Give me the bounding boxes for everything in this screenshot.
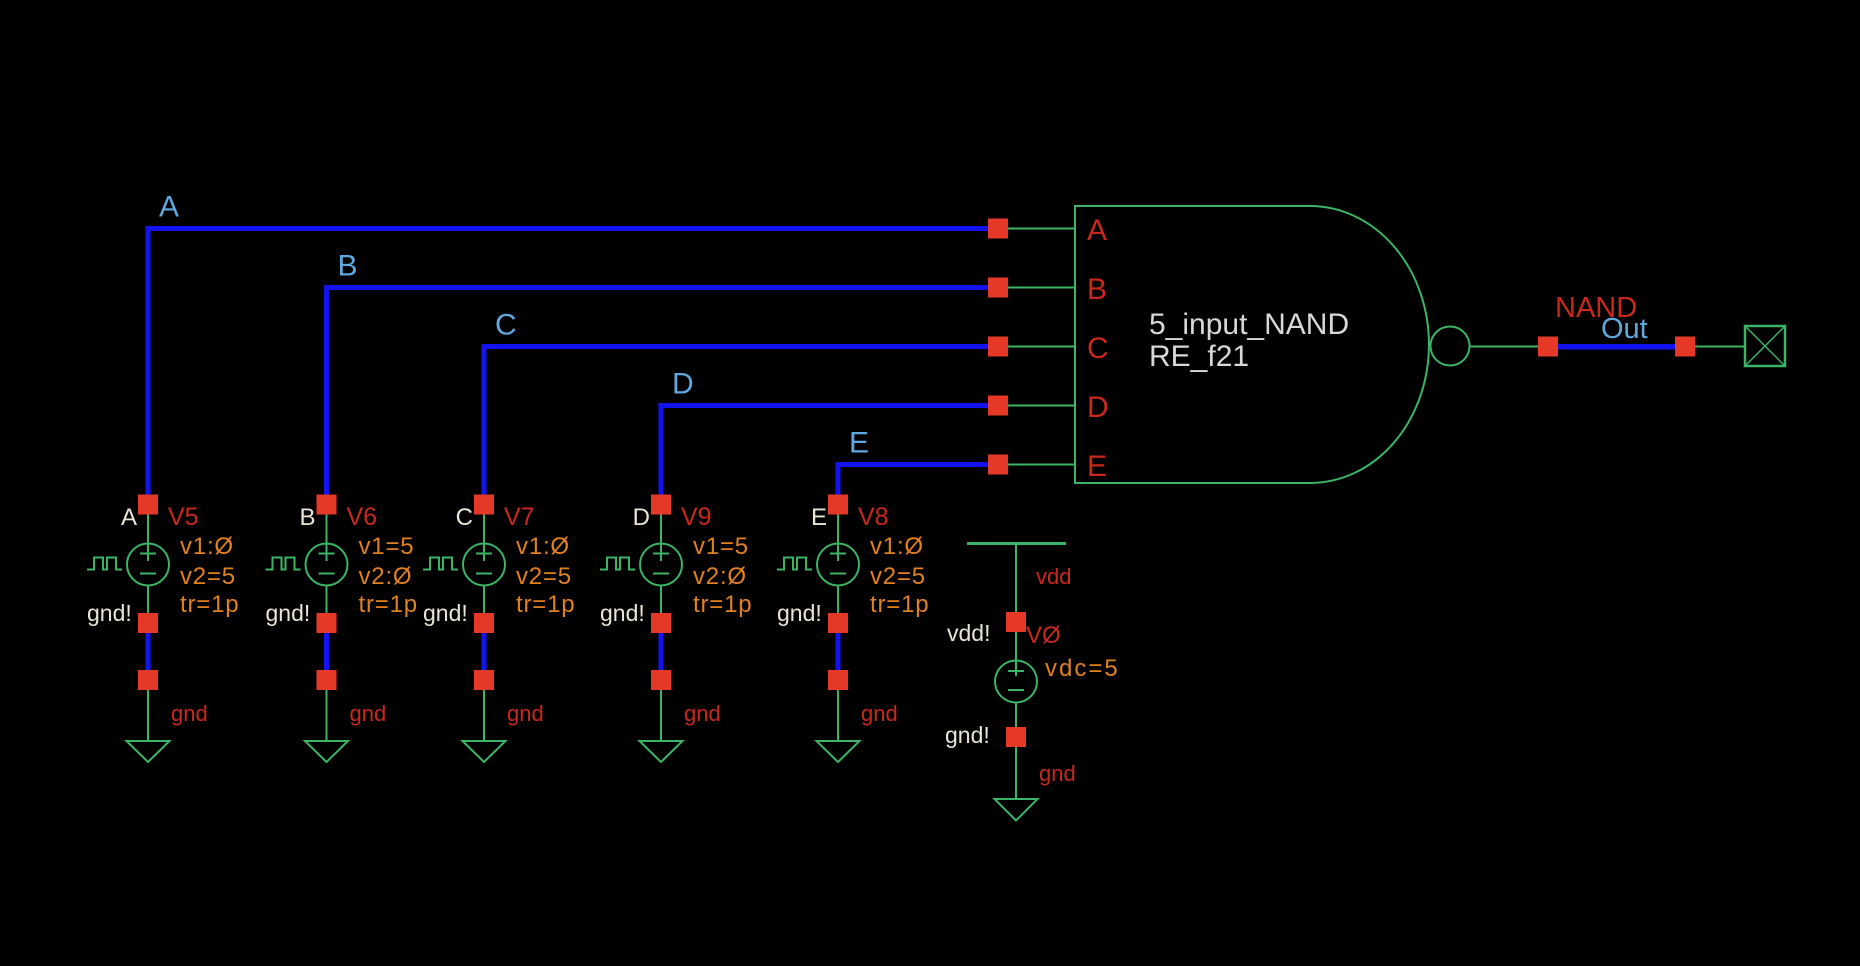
wire lead bottom: [1015, 703, 1017, 728]
minus sign: [476, 573, 492, 575]
svg-text:gnd!: gnd!: [600, 600, 645, 626]
svg-text:v1:Ø: v1:Ø: [516, 533, 570, 560]
pulse waveform glyph: [777, 558, 812, 570]
source circle: [463, 544, 505, 586]
wire lead bottom: [483, 586, 485, 614]
svg-text:E: E: [849, 427, 869, 460]
wire lead bottom: [147, 586, 149, 614]
wire lead top: [1015, 632, 1017, 676]
svg-text:V8: V8: [858, 503, 889, 531]
svg-text:V5: V5: [168, 503, 199, 531]
wire net D vertical: [659, 403, 664, 505]
plus sign: [476, 553, 492, 555]
svg-text:gnd: gnd: [171, 701, 208, 726]
gate body outline: [1075, 206, 1429, 483]
svg-text:v2=5: v2=5: [870, 563, 926, 590]
svg-text:v2=5: v2=5: [516, 563, 572, 590]
pin square top of V9: [651, 495, 671, 515]
ground lead: [1015, 747, 1017, 799]
wire net B horizontal: [324, 285, 998, 290]
svg-text:tr=1p: tr=1p: [180, 591, 239, 618]
plus sign: [140, 553, 156, 555]
wire to ground (blue): [146, 633, 151, 670]
wire lead top: [326, 515, 328, 562]
gate input pin square C: [988, 337, 1008, 357]
svg-text:gnd!: gnd!: [945, 722, 990, 748]
port stub: [1695, 346, 1745, 348]
minus sign: [653, 573, 669, 575]
ground lead: [837, 690, 839, 741]
svg-text:C: C: [495, 309, 517, 342]
wire net A horizontal: [146, 226, 999, 231]
svg-text:gnd: gnd: [1039, 761, 1076, 786]
svg-text:gnd: gnd: [507, 701, 544, 726]
svg-text:A: A: [159, 191, 179, 224]
pulse waveform glyph: [87, 558, 122, 570]
svg-text:5_input_NAND: 5_input_NAND: [1149, 308, 1349, 341]
source circle: [817, 544, 859, 586]
pin square top of V8: [828, 495, 848, 515]
svg-text:B: B: [299, 504, 315, 531]
svg-text:vdd!: vdd!: [947, 620, 990, 646]
pin square bottom of V6: [317, 613, 337, 633]
wire lead top: [147, 515, 149, 562]
wire lead bottom: [837, 586, 839, 614]
wire lead top: [483, 515, 485, 562]
svg-text:D: D: [1087, 391, 1109, 424]
wire vdd: [1015, 544, 1017, 613]
wire to ground (blue): [659, 633, 664, 670]
svg-text:tr=1p: tr=1p: [516, 591, 575, 618]
plus sign: [830, 553, 846, 555]
svg-text:D: D: [672, 368, 694, 401]
svg-text:gnd: gnd: [350, 701, 387, 726]
ground lead: [660, 690, 662, 741]
vdd rail symbol: [967, 542, 1066, 545]
wire to ground (blue): [324, 633, 329, 670]
pin square bottom of V5: [138, 613, 158, 633]
output inversion bubble: [1431, 327, 1470, 366]
svg-text:vdd: vdd: [1036, 564, 1071, 589]
svg-text:V6: V6: [347, 503, 378, 531]
svg-text:gnd!: gnd!: [777, 600, 822, 626]
ground symbol: [305, 741, 348, 762]
svg-text:E: E: [811, 504, 827, 531]
svg-text:V9: V9: [681, 503, 712, 531]
svg-text:D: D: [633, 504, 650, 531]
gate input stub B: [998, 287, 1075, 289]
svg-text:A: A: [1087, 214, 1107, 247]
output pin square (gate side): [1538, 337, 1558, 357]
wire lead top: [837, 515, 839, 562]
ground symbol: [463, 741, 506, 762]
svg-text:C: C: [1087, 332, 1109, 365]
ground symbol: [640, 741, 683, 762]
minus sign: [140, 573, 156, 575]
svg-text:Out: Out: [1601, 313, 1648, 345]
svg-text:RE_f21: RE_f21: [1149, 340, 1249, 373]
gate input pin square B: [988, 278, 1008, 298]
svg-text:v2:Ø: v2:Ø: [693, 563, 747, 590]
voltage source V6 (B): [266, 495, 418, 763]
gnd pin square: [828, 670, 848, 690]
svg-text:C: C: [456, 504, 473, 531]
svg-text:vdc=5: vdc=5: [1045, 655, 1120, 682]
svg-text:v2:Ø: v2:Ø: [359, 563, 413, 590]
svg-text:V7: V7: [504, 503, 535, 531]
svg-text:B: B: [338, 250, 358, 283]
gate input pin square D: [988, 396, 1008, 416]
svg-text:gnd: gnd: [684, 701, 721, 726]
wire lead top: [660, 515, 662, 562]
pin square bottom of V7: [474, 613, 494, 633]
pin square top of V0: [1006, 612, 1026, 632]
pulse waveform glyph: [423, 558, 458, 570]
pin square bottom of V8: [828, 613, 848, 633]
plus sign: [1008, 670, 1024, 672]
svg-text:tr=1p: tr=1p: [693, 591, 752, 618]
pulse waveform glyph: [266, 558, 301, 570]
svg-text:B: B: [1087, 273, 1107, 306]
ground symbol: [127, 741, 170, 762]
gnd pin square: [138, 670, 158, 690]
minus sign: [319, 573, 335, 575]
wire net B vertical: [324, 285, 329, 505]
op NAND gate U1 (5_input_NAND): [988, 206, 1470, 483]
svg-text:gnd!: gnd!: [423, 600, 468, 626]
voltage source V7 (C): [423, 495, 575, 763]
ground symbol: [817, 741, 860, 762]
svg-text:v1=5: v1=5: [693, 533, 749, 560]
ground lead: [147, 690, 149, 741]
svg-text:v1:Ø: v1:Ø: [180, 533, 234, 560]
wire to ground (blue): [836, 633, 841, 670]
svg-text:v2=5: v2=5: [180, 563, 236, 590]
wire net Out: [1558, 344, 1675, 350]
gate input stub E: [998, 464, 1075, 466]
ground lead: [483, 690, 485, 741]
voltage source V8 (E): [777, 495, 929, 763]
plus sign: [319, 553, 335, 555]
gate input pin square A: [988, 219, 1008, 239]
svg-text:tr=1p: tr=1p: [359, 591, 418, 618]
wire net E horizontal: [836, 462, 999, 467]
wire net A vertical: [146, 226, 151, 505]
source circle V0: [995, 661, 1037, 703]
gate input pin square E: [988, 455, 1008, 475]
wire net C vertical: [482, 344, 487, 505]
output stub from bubble: [1470, 346, 1539, 348]
wire net D horizontal: [659, 403, 999, 408]
minus sign: [830, 573, 846, 575]
voltage source V9 (D): [600, 495, 752, 763]
svg-text:A: A: [121, 504, 137, 531]
gate input stub D: [998, 405, 1075, 407]
ground lead: [326, 690, 328, 741]
source circle: [306, 544, 348, 586]
voltage source V5 (A): [87, 495, 239, 763]
svg-text:gnd!: gnd!: [266, 600, 311, 626]
source circle: [640, 544, 682, 586]
pin square top of V5: [138, 495, 158, 515]
gnd pin square: [474, 670, 494, 690]
pulse waveform glyph: [600, 558, 635, 570]
gnd pin square: [317, 670, 337, 690]
wire lead bottom: [326, 586, 328, 614]
pin square bottom of V0: [1006, 727, 1026, 747]
svg-text:E: E: [1087, 450, 1107, 483]
voltage source V0: [945, 612, 1120, 821]
gate input stub A: [998, 228, 1075, 230]
wire net C horizontal: [482, 344, 999, 349]
output port symbol Out: [1745, 326, 1785, 366]
minus sign: [1008, 689, 1024, 691]
svg-text:v1:Ø: v1:Ø: [870, 533, 924, 560]
wire lead bottom: [660, 586, 662, 614]
svg-text:VØ: VØ: [1026, 622, 1061, 649]
pin square top of V7: [474, 495, 494, 515]
svg-text:v1=5: v1=5: [359, 533, 415, 560]
plus sign: [653, 553, 669, 555]
pin square bottom of V9: [651, 613, 671, 633]
svg-text:tr=1p: tr=1p: [870, 591, 929, 618]
pin square top of V6: [317, 495, 337, 515]
wire net E vertical: [836, 462, 841, 505]
source circle: [127, 544, 169, 586]
output pin square (port side): [1675, 337, 1695, 357]
ground symbol: [995, 799, 1038, 821]
wire to ground (blue): [482, 633, 487, 670]
gnd pin square: [651, 670, 671, 690]
svg-text:gnd: gnd: [861, 701, 898, 726]
svg-text:gnd!: gnd!: [87, 600, 132, 626]
gate input stub C: [998, 346, 1075, 348]
